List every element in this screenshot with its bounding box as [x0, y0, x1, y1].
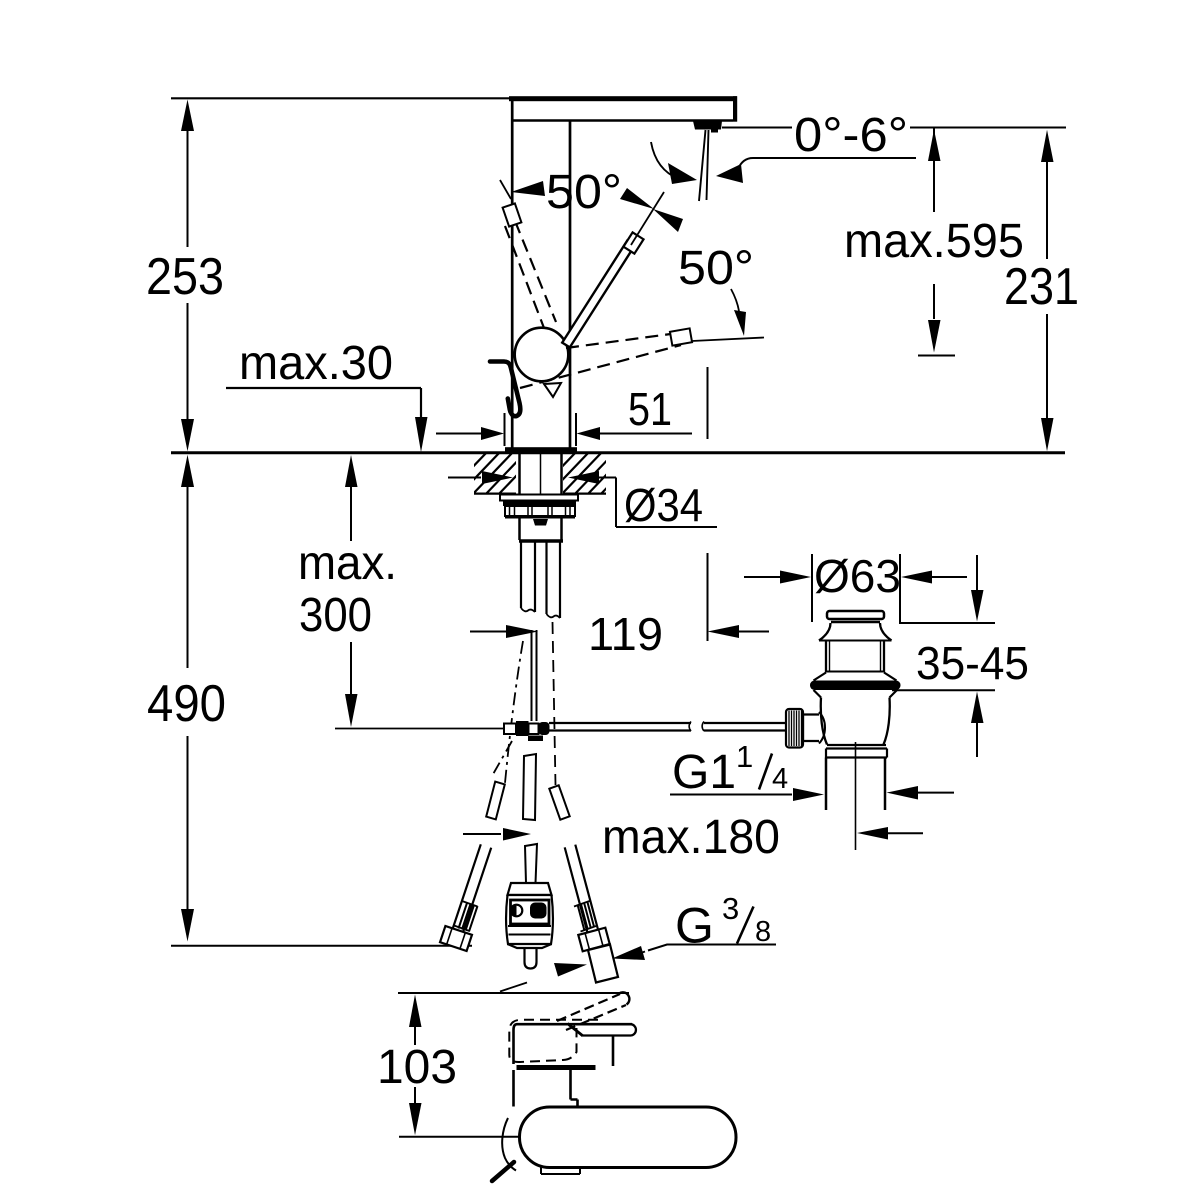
waste knurled knob: [786, 709, 803, 748]
dim O63 left arrow: [744, 576, 780, 578]
dim 103 witness top: [398, 992, 629, 994]
dim 119 right arrow: [708, 625, 740, 638]
G38 underline leader: [648, 945, 776, 951]
folded faucet head dashed box: [509, 1020, 598, 1062]
hose right nut: [578, 928, 609, 952]
dim 490 line: [187, 486, 189, 909]
counter hatching right: [534, 451, 642, 496]
dim max595 line: [933, 129, 935, 320]
dashed lever right end cap: [670, 328, 692, 345]
mounting washer: [500, 495, 578, 501]
dim 490 bottom witness line: [171, 945, 472, 947]
dim 51 witness lines: [505, 413, 577, 446]
base flange: [505, 447, 577, 452]
svg-text:490: 490: [147, 675, 226, 733]
waste body: [821, 698, 890, 745]
hose left break: [521, 608, 535, 612]
leader line y158: [753, 157, 916, 159]
svg-text:119: 119: [588, 608, 663, 660]
svg-text:300: 300: [299, 589, 372, 642]
shank bottom edge: [519, 539, 563, 543]
dim max595 bottom arrow: [928, 320, 941, 353]
dim 51 right arrow: [577, 427, 601, 440]
countertop line: [171, 451, 1065, 454]
water stream lines: [699, 130, 709, 201]
swivel leader right curve: [738, 158, 753, 169]
dim 119 left arrow: [470, 631, 506, 633]
dim 231 bottom arrow: [1041, 418, 1054, 451]
securing screw: [533, 519, 548, 526]
dim O34 right arrow: [568, 471, 599, 484]
label 50 deg right leader: [731, 289, 739, 311]
svg-text:max.180: max.180: [602, 811, 780, 864]
folded faucet bottom tab: [541, 1167, 580, 1174]
counter bottom line right: [563, 493, 606, 495]
dashed lever right: [520, 333, 681, 388]
spout axis witness line: [707, 367, 709, 641]
waste seal flange black: [810, 681, 901, 691]
dim 3545 line upper: [976, 555, 978, 590]
svg-text:50°: 50°: [678, 242, 754, 295]
lever handle solid: [562, 241, 635, 348]
pop-up rod vertical: [532, 630, 537, 721]
rod adjustable coupler: [508, 883, 552, 895]
dim max300 top arrow: [345, 455, 358, 487]
dim O34 left arrow: [448, 477, 481, 479]
hose right end pipe: [588, 945, 618, 983]
horizontal actuating rod: [549, 723, 786, 731]
supply hose left upper: [521, 542, 535, 612]
folded faucet dashed raised lever: [557, 994, 626, 1030]
dim max595 end tick: [918, 355, 955, 357]
dashed lever axis line upper-left: [500, 180, 511, 199]
supply hose right upper: [547, 542, 561, 618]
rod swing left angled piece: [486, 782, 505, 820]
faucet body left edge: [511, 97, 514, 448]
rod swing left dash-dot: [492, 741, 512, 776]
svg-text:231: 231: [1004, 258, 1079, 316]
rod lower piece: [523, 754, 536, 820]
folded faucet capsule body: [520, 1107, 737, 1168]
rod swing dash-dot curve: [505, 641, 523, 783]
hose left thread: [459, 903, 478, 932]
svg-text:0°-6°: 0°-6°: [794, 109, 908, 162]
svg-text:51: 51: [628, 383, 672, 435]
lever handle end cap: [623, 232, 643, 253]
marker triangle below ball: [544, 383, 561, 397]
max.30 arrow: [415, 417, 428, 452]
dimension line y127.5: [722, 127, 1066, 129]
coupler left eye: [511, 905, 523, 917]
folded faucet cartridge sides: [514, 1070, 578, 1107]
coupler tail: [525, 948, 537, 969]
dim max300 bottom arrow: [345, 694, 358, 727]
dashed lever upper-left: [505, 221, 556, 328]
svg-text:Ø63: Ø63: [814, 550, 901, 602]
folded faucet pull hook: [502, 1118, 516, 1171]
dim O34 leader: [599, 478, 717, 528]
coupler bottom taper: [508, 944, 552, 948]
faucet body right edge: [569, 122, 572, 448]
dim 3545 line lower: [971, 692, 984, 724]
max300 witness line: [335, 728, 504, 730]
G114 arrow: [793, 788, 824, 801]
dim 51 left arrow: [436, 433, 482, 435]
hose left lower angled: [451, 844, 491, 937]
dim max595 top arrow: [928, 130, 941, 162]
spout bar right edge: [733, 96, 737, 122]
svg-text:4: 4: [772, 763, 788, 795]
G38 arrow left: [500, 983, 527, 992]
dim 231 line: [1046, 161, 1048, 418]
dashed lever upper-left end cap: [503, 203, 522, 226]
side lever hook: [490, 362, 520, 417]
svg-text:1: 1: [736, 739, 753, 774]
counter bottom line left: [474, 493, 516, 495]
dim 3545 witness bottom: [892, 689, 995, 691]
mounting seal dark band: [503, 501, 576, 507]
dim 490 bottom arrow: [181, 909, 194, 942]
threaded shank: [520, 452, 562, 540]
spout bar bottom edge: [513, 119, 733, 122]
joystick ball: [515, 328, 569, 382]
dim 231 top arrow: [1041, 130, 1054, 162]
swivel arc left: [651, 142, 679, 179]
dim O63 right arrow: [901, 571, 932, 584]
rod tee coupling left stub: [504, 724, 516, 735]
svg-text:Ø34: Ø34: [624, 479, 703, 531]
label 50 deg left arrowhead: [511, 181, 545, 196]
hose left nut: [440, 926, 472, 951]
folded faucet lever pivot edge: [568, 1024, 584, 1037]
nut bottom line: [505, 517, 575, 519]
dim 253 top arrow: [181, 100, 194, 132]
waste side port: [803, 715, 819, 742]
waste upper body taper: [814, 690, 898, 698]
aerator: [693, 121, 722, 133]
G114 underline: [670, 794, 792, 796]
waste flare: [819, 623, 892, 641]
hose right lower angled: [565, 845, 599, 934]
folded faucet cartridge top bar: [517, 1065, 596, 1070]
dim max180 right arrow: [857, 827, 888, 840]
dim 103 top arrow: [409, 995, 422, 1028]
dim max300 line lower: [350, 642, 352, 694]
folded faucet head solid outline: [514, 1024, 633, 1064]
dim 253 line: [187, 130, 189, 419]
waste center line: [855, 742, 857, 850]
coupler band line: [508, 926, 551, 935]
dim 490 top arrow: [181, 455, 194, 487]
rod swing right angled piece: [549, 785, 569, 819]
label 50 deg right arrow: [734, 310, 746, 336]
max.30 leader underline: [226, 387, 421, 389]
max.30 leader vertical: [420, 388, 422, 418]
rod tee coupling center: [529, 724, 539, 735]
folded faucet lever bar: [583, 1034, 631, 1036]
angle dim bowtie arrowheads: [620, 188, 654, 209]
waste knob cap: [827, 611, 884, 619]
waste tailpipe: [826, 758, 885, 811]
waste neck: [826, 641, 884, 673]
dim 253 bottom arrow: [181, 419, 194, 451]
swivel arc right arrowhead: [716, 164, 743, 183]
dim O63 witness lines: [812, 554, 900, 622]
folded faucet lever rear vertical: [612, 1036, 615, 1067]
mounting nut: [505, 506, 575, 516]
shank center line: [540, 453, 542, 494]
coupler window: [511, 900, 550, 924]
svg-text:35-45: 35-45: [916, 637, 1029, 689]
rod tee lower nut: [528, 736, 543, 742]
svg-text:max.30: max.30: [239, 337, 393, 390]
waste coupling ring: [826, 749, 887, 758]
rod tee coupling black left block: [516, 721, 529, 736]
hose right break: [547, 614, 561, 618]
svg-text:max.595: max.595: [844, 215, 1024, 268]
dim 103 witness bottom: [399, 1136, 521, 1138]
spout bar top edge: [509, 96, 737, 101]
svg-text:253: 253: [146, 248, 224, 306]
rod piece above coupler: [525, 844, 537, 883]
pipe thread right arrow: [887, 786, 919, 800]
angle dim axis line: [631, 192, 664, 245]
dim max180 left arrow: [463, 833, 501, 835]
svg-text:8: 8: [755, 916, 771, 948]
G38 arrow right: [612, 946, 645, 960]
dim 103 bottom arrow: [414, 1087, 416, 1103]
counter hatching left: [445, 451, 540, 496]
rod tee coupling right cap: [539, 722, 550, 735]
svg-text:max.: max.: [298, 537, 397, 590]
dashed lever right axis line: [692, 338, 764, 342]
spout top extension line: [171, 97, 511, 99]
swivel arc left arrowhead: [668, 163, 697, 184]
hose continuation dashed line: [553, 622, 556, 785]
coupler right eye dark: [530, 903, 547, 919]
hose right thread: [578, 902, 595, 931]
svg-text:103: 103: [377, 1041, 457, 1094]
waste neck taper: [814, 673, 897, 681]
dim 3545 witness top: [899, 622, 995, 624]
svg-text:3: 3: [722, 891, 739, 926]
rod break marks: [689, 722, 704, 732]
svg-text:50°: 50°: [546, 166, 622, 219]
svg-text:G1: G1: [672, 746, 736, 799]
